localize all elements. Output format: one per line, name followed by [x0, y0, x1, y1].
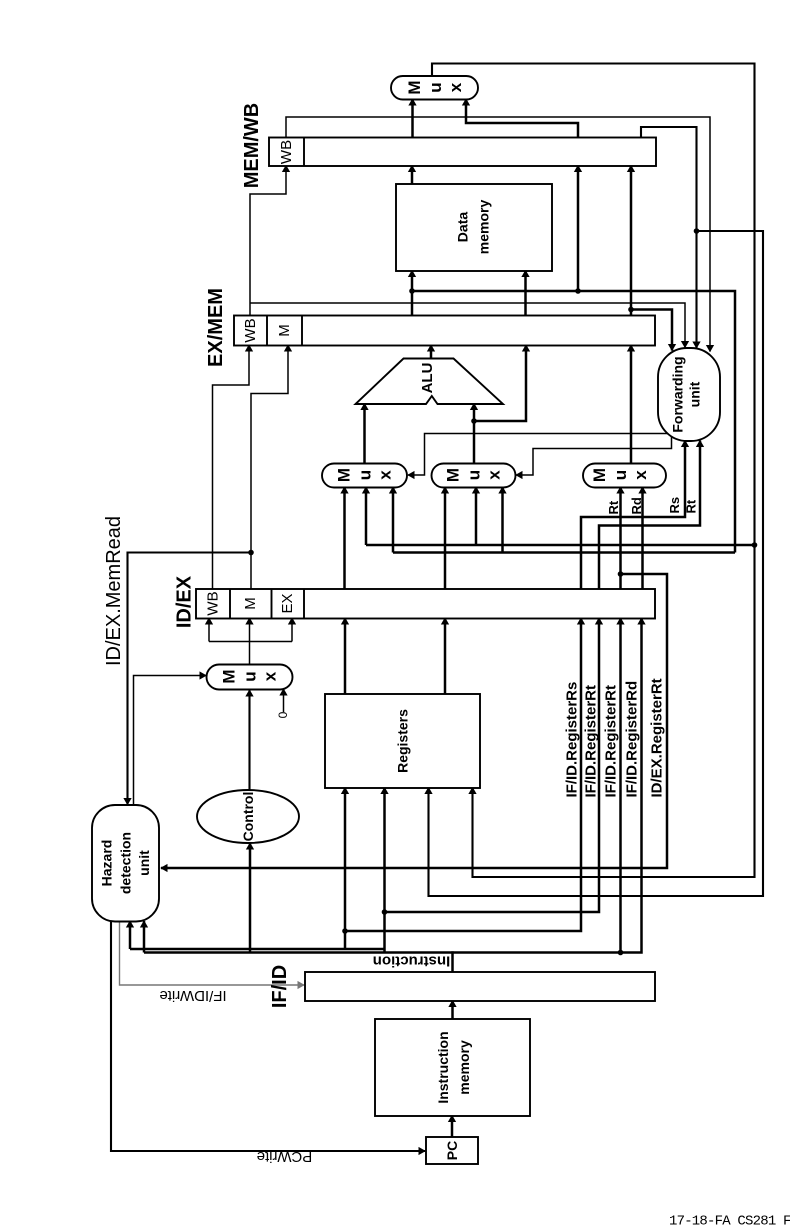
svg-text:Rd: Rd	[629, 497, 644, 514]
svg-text:unit: unit	[136, 850, 152, 876]
svg-text:IF/ID.RegisterRt: IF/ID.RegisterRt	[583, 685, 600, 798]
svg-text:x: x	[446, 82, 465, 92]
svg-text:u: u	[241, 671, 260, 681]
svg-text:Hazard: Hazard	[99, 840, 115, 887]
svg-text:IF/IDWrite: IF/IDWrite	[159, 987, 226, 1004]
svg-text:WB: WB	[205, 591, 222, 615]
svg-text:u: u	[465, 470, 484, 480]
svg-text:ID/EX.RegisterRt: ID/EX.RegisterRt	[649, 678, 666, 797]
svg-text:Instruction: Instruction	[373, 953, 451, 970]
svg-text:detection: detection	[118, 832, 134, 894]
svg-text:M: M	[335, 468, 354, 482]
svg-text:Forwarding: Forwarding	[670, 356, 686, 432]
svg-text:M: M	[405, 80, 424, 94]
svg-text:Registers: Registers	[395, 709, 411, 773]
svg-text:x: x	[261, 671, 280, 681]
svg-text:Rt: Rt	[606, 500, 621, 514]
svg-text:WB: WB	[278, 140, 295, 164]
svg-text:Data: Data	[455, 212, 471, 243]
svg-text:memory: memory	[456, 1040, 472, 1095]
svg-text:ID/EX: ID/EX	[174, 575, 196, 628]
svg-text:ALU: ALU	[419, 363, 436, 394]
svg-text:IF/ID.RegisterRs: IF/ID.RegisterRs	[563, 682, 580, 798]
svg-text:PCWrite: PCWrite	[257, 1148, 313, 1165]
svg-text:17-18-FA CS281 Fi: 17-18-FA CS281 Fi	[669, 1214, 790, 1230]
svg-text:PC: PC	[444, 1141, 460, 1160]
svg-text:unit: unit	[687, 381, 703, 407]
svg-text:0: 0	[276, 711, 290, 718]
svg-text:u: u	[426, 82, 445, 92]
svg-text:x: x	[631, 470, 650, 480]
svg-text:Instruction: Instruction	[435, 1031, 451, 1103]
svg-text:u: u	[611, 470, 630, 480]
svg-text:Rs: Rs	[667, 497, 682, 514]
svg-text:Rt: Rt	[684, 499, 699, 513]
svg-text:EX/MEM: EX/MEM	[205, 288, 227, 367]
svg-text:IF/ID.RegisterRt: IF/ID.RegisterRt	[602, 685, 619, 798]
svg-text:ID/EX.MemRead: ID/EX.MemRead	[103, 516, 125, 666]
svg-text:MEM/WB: MEM/WB	[241, 103, 263, 189]
svg-text:u: u	[356, 470, 375, 480]
svg-text:WB: WB	[242, 318, 259, 342]
svg-text:x: x	[485, 470, 504, 480]
svg-text:M: M	[220, 669, 239, 683]
svg-text:x: x	[376, 470, 395, 480]
svg-text:IF/ID.RegisterRd: IF/ID.RegisterRd	[623, 681, 640, 798]
svg-text:M: M	[242, 597, 259, 610]
svg-text:M: M	[590, 468, 609, 482]
svg-text:memory: memory	[476, 200, 492, 255]
svg-text:M: M	[276, 324, 293, 337]
svg-text:Control: Control	[240, 792, 256, 842]
svg-text:IF/ID: IF/ID	[269, 965, 291, 1008]
svg-text:M: M	[444, 468, 463, 482]
svg-text:EX: EX	[279, 593, 296, 613]
